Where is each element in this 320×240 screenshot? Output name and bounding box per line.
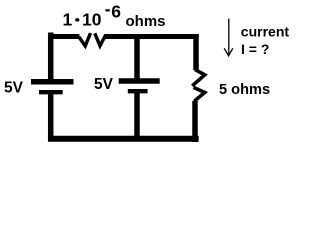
svg-text:I = ?: I = ? [241,41,269,57]
svg-text:5V: 5V [4,80,24,97]
svg-text:5V: 5V [94,76,114,93]
svg-text:10: 10 [82,10,102,30]
resistor R1 zigzag (top) [79,33,91,46]
wire middle vertical lower [134,92,140,142]
svg-text:6: 6 [111,2,121,22]
resistor R2 zigzag (right) [192,70,205,86]
battery V1 bottom plate [39,90,63,94]
battery V2 bottom plate [128,89,148,93]
svg-text:5 ohms: 5 ohms [219,82,270,98]
wire right vertical lower [192,101,198,142]
battery V2 top plate [119,78,160,84]
battery V1 top plate [31,79,74,85]
wire top-left segment [48,34,80,39]
svg-text:current: current [241,24,290,40]
wire bottom [48,136,199,142]
svg-text:ohms: ohms [126,13,166,30]
wire right vertical upper [193,34,199,70]
wire middle vertical upper [134,34,140,81]
wire left vertical lower [48,93,54,141]
current arrow [228,19,230,56]
svg-text:1: 1 [63,10,73,30]
wire top-right segment [105,34,199,39]
wire left vertical upper [48,33,54,82]
